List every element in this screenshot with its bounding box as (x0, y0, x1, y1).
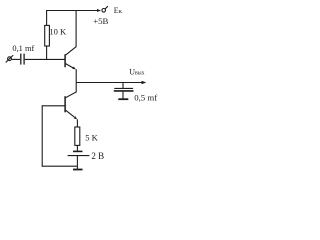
wire: VT1 emitter down to VT2 collector (75, 69, 77, 92)
wire: top supply rail (46, 10, 97, 12)
transistor VT1 (NPN) (65, 47, 76, 70)
input terminal X1 (6, 55, 14, 62)
wire: output to C2 (122, 83, 124, 89)
ground: below C2 (118, 98, 128, 100)
svg-text:2 В: 2 В (91, 151, 104, 161)
svg-text:0,1 mf: 0,1 mf (12, 44, 34, 53)
wire: C1 to base of VT1 (25, 58, 65, 60)
wire: feedback vertical (41, 105, 43, 166)
svg-text:5 K: 5 K (85, 132, 98, 142)
resistor R2 (5 K) (75, 127, 80, 145)
wire: bottom return (42, 165, 77, 167)
ground: bottom (73, 169, 83, 171)
wire: output line (76, 82, 142, 84)
battery GB1 (2 В) (68, 151, 90, 155)
wire: feedback to VT2 base (42, 105, 64, 107)
transistor VT2 (NPN) (65, 92, 77, 120)
svg-text:0,5 mf: 0,5 mf (134, 93, 157, 103)
svg-text:10 K: 10 K (49, 27, 67, 37)
svg-text:Eк: Eк (114, 6, 123, 15)
wire: R1 bottom lead to input wire junction (46, 46, 48, 60)
resistor R1 (10 K) (45, 25, 50, 46)
arrow into supply terminal (97, 9, 101, 12)
arrow: output (142, 81, 147, 85)
wire: R2 to battery (76, 145, 78, 150)
wire: R1 top lead (46, 11, 48, 26)
wire: battery to bottom node (76, 156, 78, 169)
svg-text:+5В: +5В (93, 16, 108, 26)
wire: VT2 emitter to R2 (76, 119, 78, 127)
wire: input terminal to C1 (11, 58, 20, 60)
capacitor C2 (0,5 mf) (114, 88, 134, 98)
supply terminal (Eк) (102, 6, 108, 12)
wire: VT1 collector to rail (75, 11, 77, 47)
capacitor C1 (0,1 mf) (21, 54, 24, 65)
